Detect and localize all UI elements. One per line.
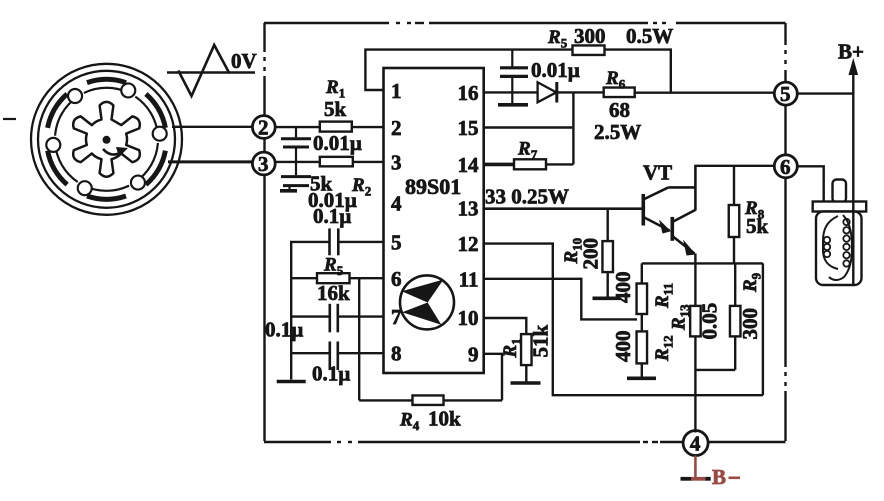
resistor R8 5k [729,205,740,237]
magneto flywheel generator [31,64,182,215]
wire R6 to terminal 5 [635,91,775,93]
svg-text:0.1µ: 0.1µ [313,204,351,228]
svg-text:R5: R5 [547,27,568,51]
capacitor 0.01u input B [295,162,297,175]
terminal 3 [252,152,275,175]
resistor R9 300 [734,263,736,306]
svg-text:12: 12 [458,232,479,256]
svg-text:16k: 16k [317,281,350,305]
wire pin13 to VT [484,207,642,210]
wire R11-R12 junction [641,314,643,331]
CDI module border (chain line) [264,22,389,24]
svg-text:9: 9 [468,342,479,366]
wire 51k to ground [525,365,527,381]
resistor R11 400 [641,263,643,283]
wire top rail divider [642,262,763,264]
wire VT emitter down [694,254,696,306]
wire terminal 3 to pin 3 [275,161,384,163]
wire R9 bottom [734,336,736,370]
wire diode to R6 [557,91,604,93]
wire R8 stub bottom [733,237,735,263]
wire R10 stub [607,209,609,241]
resistor R13 0.05 [690,306,701,337]
wire pin14 to R7 [484,163,514,167]
svg-text:R12: R12 [652,335,676,362]
svg-text:R5: R5 [323,255,344,279]
svg-text:R11: R11 [652,283,676,309]
wire terminal6 to coil [797,166,823,202]
wire B- stem [694,456,697,478]
svg-text:4: 4 [690,432,701,456]
wire R10 to ground [607,272,609,297]
wire pin10 [484,318,527,334]
svg-text:0.1µ: 0.1µ [312,362,350,386]
wire R12 to ground [641,363,643,376]
wire magneto to terminal 3 [168,160,253,163]
ground bar under top cap [498,103,528,107]
capacitor 0.01u input A [295,127,297,137]
svg-text:0.01µ: 0.01µ [313,131,362,155]
wire pin1 loop [365,50,573,90]
svg-text:R7: R7 [517,139,538,163]
B+ arrow [849,58,859,75]
svg-text:51k: 51k [529,325,553,358]
wire pin16 to diode [484,91,538,93]
svg-text:13: 13 [458,197,479,221]
diode VD [0,0,1,1]
IC logo [400,275,454,329]
terminal 4 [683,431,708,456]
capacitor 0.1u pin7 [328,304,331,333]
capacitor 0.1u pin8 [328,342,331,371]
resistor R2 5k [320,157,353,167]
terminal 5 [774,82,797,105]
svg-text:B+: B+ [838,40,864,64]
wire pin5 [339,241,384,243]
wire terminal5 to B+ [797,92,853,94]
wire pin7 row [291,315,330,317]
B+ supply line [852,70,854,285]
svg-text:0.1µ: 0.1µ [265,318,303,342]
svg-text:10: 10 [458,306,479,330]
svg-text:3: 3 [258,152,269,176]
svg-text:R4: R4 [399,410,420,434]
svg-text:2: 2 [391,116,402,140]
capacitor 0.1u pin5 [328,228,331,255]
svg-text:0V: 0V [231,49,257,73]
svg-text:400: 400 [611,331,635,363]
svg-text:33 0.25W: 33 0.25W [485,185,569,209]
svg-text:0.01µ: 0.01µ [531,58,580,82]
vertical tie pin6-pin8-R4 [358,278,360,400]
ignition coil T1 [833,180,847,203]
trigger waveform symbol [167,71,255,73]
wire magneto to terminal 2 [172,126,253,128]
svg-text:2.5W: 2.5W [594,120,641,144]
op-amp/IC U1 89S01 body [384,68,484,373]
svg-text:5k: 5k [746,214,769,238]
transistor VT (darlington) [641,194,645,226]
svg-text:R1: R1 [500,338,524,358]
wire pin9 [484,354,502,401]
svg-text:VT: VT [643,161,672,185]
svg-text:200: 200 [579,238,603,270]
wire terminal4 stem [694,431,696,433]
svg-text:5: 5 [780,82,791,106]
ground under R12 [627,376,656,380]
svg-text:B: B [712,465,726,489]
wire pin5 left [291,242,329,380]
svg-text:8: 8 [391,342,402,366]
ground left column [277,380,306,384]
wire R13-R9 tie [695,369,735,371]
resistor R5 300 0.5W [573,45,605,55]
wire collector rail [695,165,774,167]
wire pin8 row [291,352,330,354]
wire R13 bottom [694,336,696,432]
svg-text:6: 6 [391,267,402,291]
svg-text:89S01: 89S01 [405,174,461,199]
ground under 51k [511,381,541,385]
ground under R10 [593,296,621,300]
terminal 2 [252,116,275,139]
wire right edge divider [762,263,764,395]
svg-text:68: 68 [609,98,630,122]
svg-text:400: 400 [611,272,635,304]
resistor R1 51k [521,334,532,365]
resistor R6 68 2.5W [604,88,635,98]
svg-text:2: 2 [258,116,269,140]
resistor R10 200 [602,241,613,272]
svg-text:16: 16 [458,81,479,105]
resistor R12 400 [637,331,648,363]
ground under input caps [280,189,297,193]
wire R4 row [359,399,412,401]
svg-text:R6: R6 [605,68,626,92]
ground B- [681,477,693,481]
terminal 6 [774,155,797,178]
wire R5 to corner [604,50,671,93]
resistor R1 5k [320,122,352,132]
svg-text:300: 300 [574,24,606,48]
capacitor 0.01u top [511,50,513,67]
svg-text:5k: 5k [324,97,347,121]
svg-text:6: 6 [780,155,791,179]
svg-text:15: 15 [458,116,479,140]
resistor R4 10k [413,395,444,405]
vertical tie pin16-pin15-R7 [572,92,574,164]
svg-text:300: 300 [738,308,762,340]
wire R8 stub top [733,166,735,205]
wire pin11 [484,279,637,320]
stray mark [3,118,16,120]
wire pin6 row [291,277,383,279]
wire R7 right [546,163,573,165]
wire terminal 2 to pin 2 [275,126,384,128]
svg-text:R9: R9 [740,272,764,293]
wire pin15 [484,126,573,128]
wire pin12 [484,244,763,396]
svg-text:11: 11 [459,267,479,291]
svg-text:0.5W: 0.5W [626,24,673,48]
resistor R7 [514,159,546,169]
svg-text:3: 3 [391,151,402,175]
svg-text:5: 5 [391,231,402,255]
svg-text:4: 4 [391,192,402,216]
resistor R5 16k [317,273,350,283]
svg-text:0.05: 0.05 [698,303,722,340]
svg-text:14: 14 [458,153,480,177]
svg-text:1: 1 [391,79,402,103]
svg-text:10k: 10k [428,407,461,431]
